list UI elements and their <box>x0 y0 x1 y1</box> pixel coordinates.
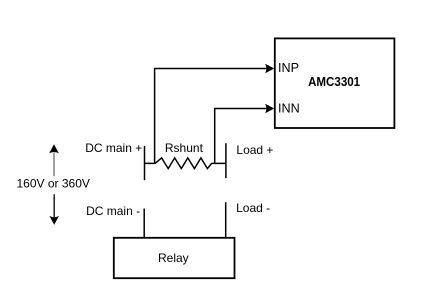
svg-text:INN: INN <box>278 101 300 115</box>
wire DC main - (down to relay) <box>143 209 145 239</box>
wire INN (from Rshunt right terminal up and right into INN pin) <box>215 104 275 164</box>
svg-text:Load -: Load - <box>236 201 270 215</box>
pin label INP <box>278 61 299 75</box>
resistor Rshunt (zigzag with horizontal leads) <box>145 158 226 169</box>
svg-text:AMC3301: AMC3301 <box>308 74 360 89</box>
label Load - <box>236 201 270 215</box>
op-amp U1 AMC3301 box <box>275 38 395 128</box>
svg-text:Load +: Load + <box>236 143 273 157</box>
svg-text:160V or 360V: 160V or 360V <box>17 177 90 191</box>
label Relay <box>158 251 189 265</box>
wire Load - (down to relay) <box>225 202 227 238</box>
svg-text:Rshunt: Rshunt <box>165 141 204 155</box>
label AMC3301 <box>308 74 360 89</box>
label 160V or 360V <box>17 177 90 191</box>
arrow up (bus voltage indicator, upper half) <box>49 144 59 176</box>
label DC main + <box>85 141 142 155</box>
svg-text:DC main -: DC main - <box>86 204 140 218</box>
node Load + terminal tick <box>225 143 227 178</box>
svg-text:Relay: Relay <box>158 251 189 265</box>
svg-text:DC main +: DC main + <box>85 141 142 155</box>
label Load + <box>236 143 273 157</box>
node DC main + terminal tick <box>144 146 146 180</box>
pin label INN <box>278 101 300 115</box>
label DC main - <box>86 204 140 218</box>
relay K1 box <box>114 238 235 278</box>
wire INP (from Rshunt left terminal up and right into INP pin) <box>155 64 275 164</box>
svg-text:INP: INP <box>278 61 299 75</box>
label Rshunt <box>165 141 204 155</box>
arrow down (bus voltage indicator, lower half) <box>49 194 59 225</box>
